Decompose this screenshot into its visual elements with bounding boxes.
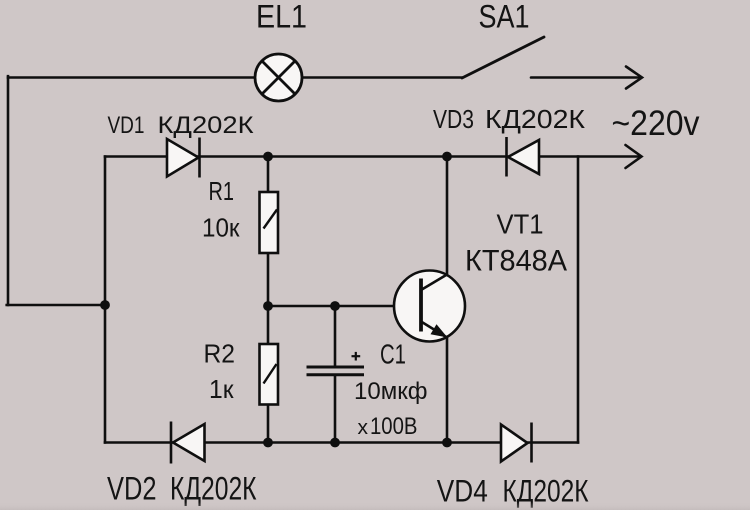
resistor R1 (260, 192, 279, 253)
node dot (268,156.5) (263, 152, 273, 162)
wire top-left horizontal (8, 76, 255, 79)
wire R2 bottom lead (267, 405, 270, 443)
node dot (447,442.5) (442, 438, 452, 448)
resistor R2 (260, 344, 279, 405)
svg-text:10мкф: 10мкф (354, 378, 428, 405)
wire collector lead x=447 (446, 157, 449, 276)
svg-text:R2: R2 (204, 339, 236, 369)
node dot (447,156.5) (442, 152, 452, 162)
wire main top rail y=156.5 with arrow to mains (105, 155, 640, 158)
svg-text:SA1: SA1 (479, 0, 530, 35)
svg-text:VD2: VD2 (107, 471, 157, 507)
capacitor C1 plates (307, 367, 365, 375)
svg-text:~220v: ~220v (612, 104, 700, 143)
diode VD2 (171, 422, 205, 464)
arrow to mains (right, on main rail) (626, 145, 642, 168)
lamp EL1 (255, 54, 302, 101)
wire R1 top lead (267, 157, 270, 193)
svg-text:х: х (358, 417, 369, 439)
node dot (335,306) (330, 301, 340, 311)
svg-text:VD1: VD1 (108, 112, 145, 139)
node dot (268,306) (263, 301, 273, 311)
capacitor C1 polarity plus (352, 352, 361, 361)
svg-text:КД202К: КД202К (158, 112, 254, 139)
svg-text:100В: 100В (370, 413, 418, 440)
diode VD4 (501, 423, 532, 463)
diode VD1 (167, 138, 200, 178)
svg-text:EL1: EL1 (256, 0, 307, 35)
arrow to mains (top) (531, 67, 642, 89)
node dot (268,442.5) (263, 438, 273, 448)
svg-text:C1: C1 (380, 339, 406, 370)
svg-text:R1: R1 (209, 176, 235, 206)
svg-text:КТ848А: КТ848А (465, 245, 567, 278)
wire left vertical drop (7, 76, 10, 305)
svg-text:VD3: VD3 (433, 104, 474, 134)
wire right vertical x=578 (577, 157, 580, 443)
wire capacitor bottom lead (334, 375, 337, 443)
wire lower-left horizontal (7, 304, 105, 307)
wire lamp to switch (302, 76, 462, 79)
wire R1-R2 vertical through base node (267, 253, 270, 344)
transistor VT1 (394, 271, 465, 342)
wire capacitor top lead (334, 306, 337, 366)
svg-text:КД202К: КД202К (170, 471, 257, 507)
wire emitter lead x=447 (446, 337, 449, 443)
svg-text:КД202К: КД202К (485, 104, 585, 134)
svg-text:VT1: VT1 (497, 209, 544, 240)
bottom photo edge shading (0, 502, 750, 510)
wire bottom rail y=442.5 (105, 441, 578, 444)
svg-text:1к: 1к (209, 374, 234, 404)
svg-text:10к: 10к (202, 213, 240, 243)
switch SA1 blade (462, 37, 544, 78)
diode VD3 (507, 137, 540, 177)
node dot (335,442.5) (330, 438, 340, 448)
node dot (105,305) (100, 300, 110, 310)
wire left branch vertical x=105 (104, 157, 107, 443)
wire base rail to transistor (268, 305, 421, 308)
